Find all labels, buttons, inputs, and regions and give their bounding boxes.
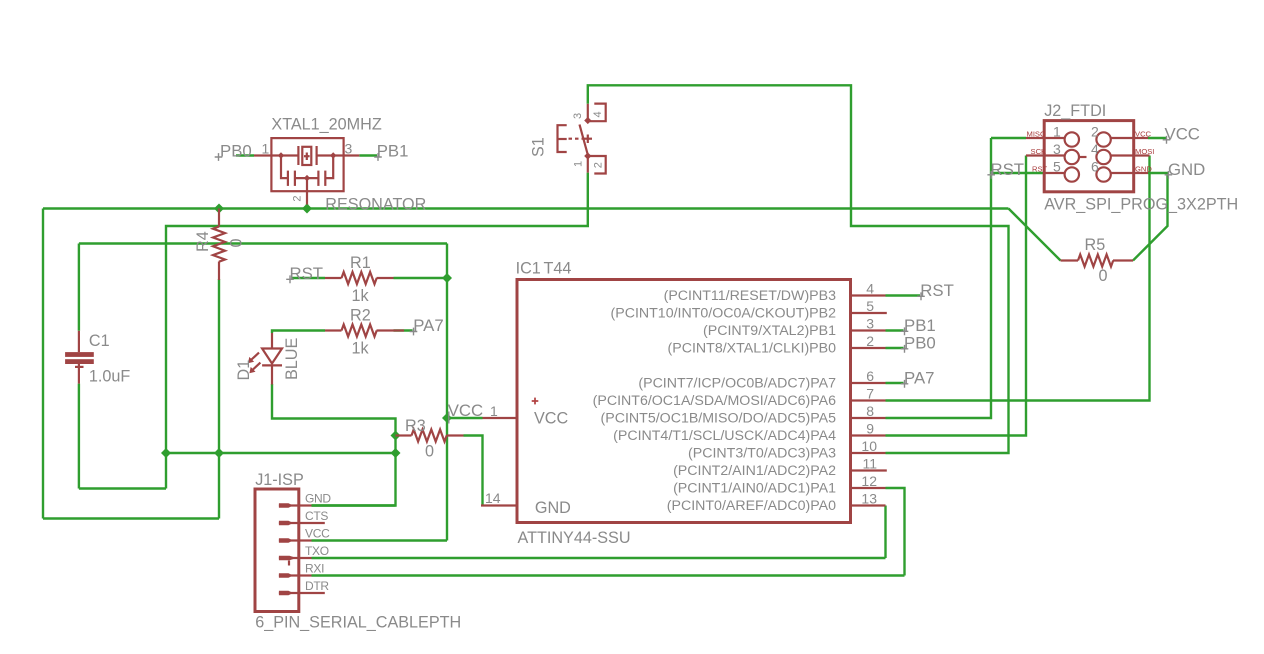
wire RST label to R1	[292, 277, 326, 279]
junction at XTAL pin2	[302, 204, 312, 214]
pin 5 stub RST	[1044, 172, 1064, 174]
svg-text:(PCINT3/T0/ADC3)PA3: (PCINT3/T0/ADC3)PA3	[688, 446, 836, 462]
node VCC (J2)	[1163, 125, 1200, 144]
node PA7 (IC pin6)	[901, 369, 935, 388]
svg-text:GND: GND	[535, 499, 571, 517]
wire IC pin6 to PA7 label	[886, 382, 904, 384]
wire XTAL pin2 stub to rail	[306, 204, 308, 209]
svg-text:DTR: DTR	[305, 579, 329, 593]
svg-text:R1: R1	[350, 254, 371, 272]
node PB1	[374, 142, 408, 161]
svg-text:3: 3	[1053, 141, 1061, 157]
junction at IC pin1 VCC	[442, 413, 452, 423]
svg-text:VCC: VCC	[448, 401, 483, 420]
wire VCC vertical x=447 from y=243.5 to J1 VCC row	[446, 244, 448, 541]
connector J2_FTDI	[1026, 102, 1238, 214]
wire R2 left to D1 anode corner	[272, 331, 325, 334]
pin 4 stub MOSI	[1111, 154, 1150, 156]
svg-text:4: 4	[592, 111, 604, 117]
svg-text:(PCINT6/OC1A/SDA/MOSI/ADC6)PA6: (PCINT6/OC1A/SDA/MOSI/ADC6)PA6	[593, 393, 836, 409]
svg-text:10: 10	[861, 438, 877, 454]
svg-text:1: 1	[490, 403, 498, 419]
node PB0 (IC pin2)	[901, 334, 936, 353]
svg-text:R4: R4	[194, 231, 212, 252]
right side pin stubs	[851, 294, 886, 296]
junction at R3 left	[391, 431, 401, 441]
switch S1	[530, 104, 606, 174]
capacitor C1	[65, 331, 130, 386]
svg-text:(PCINT9/XTAL2)PB1: (PCINT9/XTAL2)PB1	[703, 323, 836, 339]
svg-text:0: 0	[425, 443, 434, 461]
svg-text:5: 5	[866, 298, 874, 314]
wire IC pin12 to RXI	[886, 488, 905, 576]
svg-text:0: 0	[228, 238, 246, 247]
pin head circles	[1065, 132, 1079, 146]
wire XTAL pin1 to PB0 label	[236, 154, 254, 156]
svg-text:3: 3	[572, 113, 584, 119]
svg-text:5: 5	[1053, 159, 1061, 175]
svg-text:1k: 1k	[352, 340, 370, 358]
svg-text:RST: RST	[920, 281, 954, 300]
wire D1 cathode down, right y=418.5, down x=395.5 to J1 GND row	[272, 384, 396, 506]
svg-text:R3: R3	[405, 417, 426, 435]
svg-text:1: 1	[1053, 124, 1061, 140]
connector J1-ISP	[255, 471, 461, 632]
svg-text:RST: RST	[290, 264, 324, 283]
resistor R4 (vertical)	[194, 209, 246, 281]
svg-text:BLUE: BLUE	[283, 338, 301, 380]
wire R1 right to VCC vertical	[394, 277, 448, 279]
svg-text:0: 0	[1099, 267, 1108, 285]
svg-text:2: 2	[593, 162, 605, 168]
wire IC pin13 to TXO	[884, 506, 886, 559]
svg-text:(PCINT10/INT0/OC0A/CKOUT)PB2: (PCINT10/INT0/OC0A/CKOUT)PB2	[611, 306, 837, 322]
svg-text:PA7: PA7	[904, 369, 934, 388]
node RST (IC pin4)	[917, 281, 954, 300]
wire IC pin4 to RST label	[886, 294, 921, 296]
svg-text:12: 12	[861, 473, 877, 489]
svg-text:T44: T44	[544, 260, 572, 278]
wire C1 bottom horizontal y=488.5	[79, 487, 166, 489]
wire S1 bottom net: vertical x=587.8 down, left along y=226, down x=166	[166, 173, 588, 489]
wire J1 GND pin wire	[312, 504, 396, 506]
svg-text:J1-ISP: J1-ISP	[255, 471, 304, 489]
wire J2 RST label wire	[991, 172, 1044, 174]
wire R2 right to PA7 label	[394, 329, 413, 331]
junction GND line x=166	[161, 448, 171, 458]
svg-text:2: 2	[866, 333, 874, 349]
junction GND line x=219	[214, 448, 224, 458]
svg-text:IC1: IC1	[516, 260, 541, 278]
svg-text:PB1: PB1	[377, 142, 409, 161]
pin 2 stub VCC	[1111, 137, 1148, 139]
junction at R4 top	[214, 204, 224, 214]
svg-text:(PCINT5/OC1B/MISO/DO/ADC5)PA5: (PCINT5/OC1B/MISO/DO/ADC5)PA5	[601, 411, 837, 427]
wire GND riser x=219	[218, 453, 220, 519]
wire IC pin3 to PB1 label	[886, 329, 904, 331]
junction at R1 right / VCC	[442, 273, 452, 283]
pin VCC	[279, 539, 312, 541]
svg-text:(PCINT7/ICP/OC0B/ADC7)PA7: (PCINT7/ICP/OC0B/ADC7)PA7	[638, 376, 836, 392]
node RST (R1 left)	[286, 264, 323, 283]
wire C1 bottom vertical	[78, 384, 80, 489]
svg-text:SCK: SCK	[1031, 147, 1047, 156]
wire XTAL pin3 to PB1 label	[359, 154, 377, 156]
svg-text:9: 9	[866, 421, 874, 437]
resonator XTAL1	[254, 115, 426, 213]
LED D1	[235, 333, 301, 385]
svg-text:(PCINT2/AIN1/ADC2)PA2: (PCINT2/AIN1/ADC2)PA2	[673, 463, 836, 479]
wire GND mid horizontal y=453	[166, 452, 396, 454]
svg-text:6: 6	[1091, 159, 1099, 175]
svg-text:CTS: CTS	[305, 509, 328, 523]
pin numbers right	[861, 281, 877, 507]
svg-text:1.0uF: 1.0uF	[89, 368, 131, 386]
svg-text:MISO: MISO	[1027, 129, 1047, 138]
svg-text:R2: R2	[350, 307, 371, 325]
svg-text:PB1: PB1	[904, 316, 936, 335]
svg-text:3: 3	[866, 316, 874, 332]
svg-text:6: 6	[866, 368, 874, 384]
node PB1 (IC pin3)	[901, 316, 936, 335]
wire RXI horizontal y=575.5	[312, 574, 905, 576]
svg-text:GND: GND	[1168, 160, 1205, 179]
svg-text:1: 1	[262, 140, 270, 156]
wire TXO horizontal y=558	[312, 557, 886, 559]
wire IC pin9 to J2 SCK vertical	[886, 156, 1027, 436]
svg-text:XTAL1_20MHZ: XTAL1_20MHZ	[271, 115, 381, 133]
svg-text:AVR_SPI_PROG_3X2PTH: AVR_SPI_PROG_3X2PTH	[1044, 196, 1238, 214]
svg-text:VCC: VCC	[534, 410, 568, 428]
pin 3 stub SCK	[1026, 154, 1065, 156]
pin 1 VCC stub	[483, 417, 518, 419]
wire C1 top vertical x=78.9	[78, 244, 80, 331]
svg-text:4: 4	[866, 281, 874, 297]
pin DTR	[279, 592, 325, 594]
resistor R5	[1061, 236, 1134, 285]
svg-text:ATTINY44-SSU: ATTINY44-SSU	[518, 529, 631, 547]
resistor R1	[325, 254, 394, 305]
node PB0	[215, 142, 252, 161]
svg-text:PB0: PB0	[220, 142, 252, 161]
node PA7 (R2 right)	[410, 316, 444, 335]
node RST (J2 left)	[987, 160, 1024, 179]
pin CTS	[279, 522, 325, 524]
pin 1 stub MISO	[1026, 137, 1065, 139]
pin RXI	[279, 574, 312, 576]
pin 14 GND stub	[481, 504, 517, 506]
svg-text:7: 7	[866, 386, 874, 402]
svg-text:3: 3	[345, 140, 353, 156]
wire J2 MISO horizontal	[991, 137, 1026, 139]
svg-text:GND: GND	[305, 492, 331, 506]
svg-text:1k: 1k	[352, 287, 370, 305]
wire J1 VCC horizontal y=540.5	[312, 539, 448, 541]
svg-text:VCC: VCC	[305, 527, 330, 541]
svg-text:6_PIN_SERIAL_CABLEPTH: 6_PIN_SERIAL_CABLEPTH	[255, 614, 461, 632]
svg-text:13: 13	[861, 491, 877, 507]
svg-text:11: 11	[862, 456, 877, 472]
node VCC (IC pin1)	[448, 401, 483, 424]
wire IC pin7 to J2 MOSI vertical	[886, 156, 1150, 401]
svg-text:(PCINT1/AIN0/ADC1)PA1: (PCINT1/AIN0/ADC1)PA1	[673, 481, 836, 497]
wire J2 GND label wire, down and diagonal to R5	[1133, 173, 1168, 261]
svg-text:RESONATOR: RESONATOR	[325, 195, 426, 213]
svg-text:8: 8	[866, 403, 874, 419]
svg-text:TXO: TXO	[305, 544, 329, 558]
svg-text:(PCINT11/RESET/DW)PB3: (PCINT11/RESET/DW)PB3	[664, 288, 836, 304]
IC plus mark	[532, 398, 539, 405]
wire IC pin2 to PB0 label	[886, 347, 904, 349]
wire IC pin1 VCC	[447, 417, 483, 419]
pin TXO	[279, 557, 312, 559]
IC U1 IC1 ATTINY44-SSU	[481, 260, 887, 548]
svg-text:S1: S1	[530, 137, 548, 157]
wire VCC horizontal y=243.5	[79, 242, 447, 244]
wire GND left rail down x=43	[42, 209, 44, 519]
wire rail diagonal to R5 left	[1009, 209, 1061, 261]
svg-text:14: 14	[485, 490, 501, 506]
svg-text:2: 2	[1091, 124, 1099, 140]
svg-text:1: 1	[573, 161, 585, 167]
junction GND line x=395.5	[391, 448, 401, 458]
svg-text:MOSI: MOSI	[1135, 147, 1154, 156]
svg-text:R5: R5	[1085, 236, 1106, 254]
svg-text:D1: D1	[235, 360, 253, 381]
wire net GND horizontal rail y=208.5	[43, 207, 1009, 209]
svg-text:(PCINT8/XTAL1/CLKI)PB0: (PCINT8/XTAL1/CLKI)PB0	[668, 341, 837, 357]
wire J2 VCC label wire	[1148, 137, 1166, 139]
svg-text:VCC: VCC	[1165, 125, 1200, 144]
svg-text:4: 4	[1091, 141, 1099, 157]
svg-text:RST: RST	[991, 160, 1025, 179]
svg-text:(PCINT4/T1/SCL/USCK/ADC4)PA4: (PCINT4/T1/SCL/USCK/ADC4)PA4	[613, 428, 836, 444]
resistor R3	[396, 417, 464, 461]
svg-text:GND: GND	[1135, 164, 1152, 173]
svg-text:RXI: RXI	[305, 562, 324, 576]
wire R4 bottom green x=219	[218, 279, 220, 453]
svg-text:VCC: VCC	[1135, 129, 1152, 138]
node GND (J2)	[1165, 160, 1206, 179]
wire GND bottom-left horizontal y=518.5	[43, 517, 219, 519]
svg-text:2: 2	[292, 195, 304, 201]
svg-text:J2_FTDI: J2_FTDI	[1044, 102, 1106, 120]
wire IC pin8 to J2 MISO vertical	[886, 138, 992, 418]
svg-text:RST: RST	[1032, 164, 1048, 173]
svg-text:C1: C1	[89, 332, 110, 350]
wire S1 top net: up x=587.8, right y=85.3, down x=851, right y=226, down x=1008.5, left y=453	[588, 85, 1009, 453]
svg-text:PA7: PA7	[413, 316, 443, 335]
svg-text:PB0: PB0	[904, 334, 936, 353]
resistor R2	[325, 307, 404, 358]
wire R3 right to IC pin14	[464, 436, 483, 506]
svg-text:(PCINT0/AREF/ADC0)PA0: (PCINT0/AREF/ADC0)PA0	[667, 498, 836, 514]
pin GND	[279, 504, 312, 506]
inside pin labels	[593, 288, 836, 514]
pin 6 stub GND	[1111, 172, 1148, 174]
